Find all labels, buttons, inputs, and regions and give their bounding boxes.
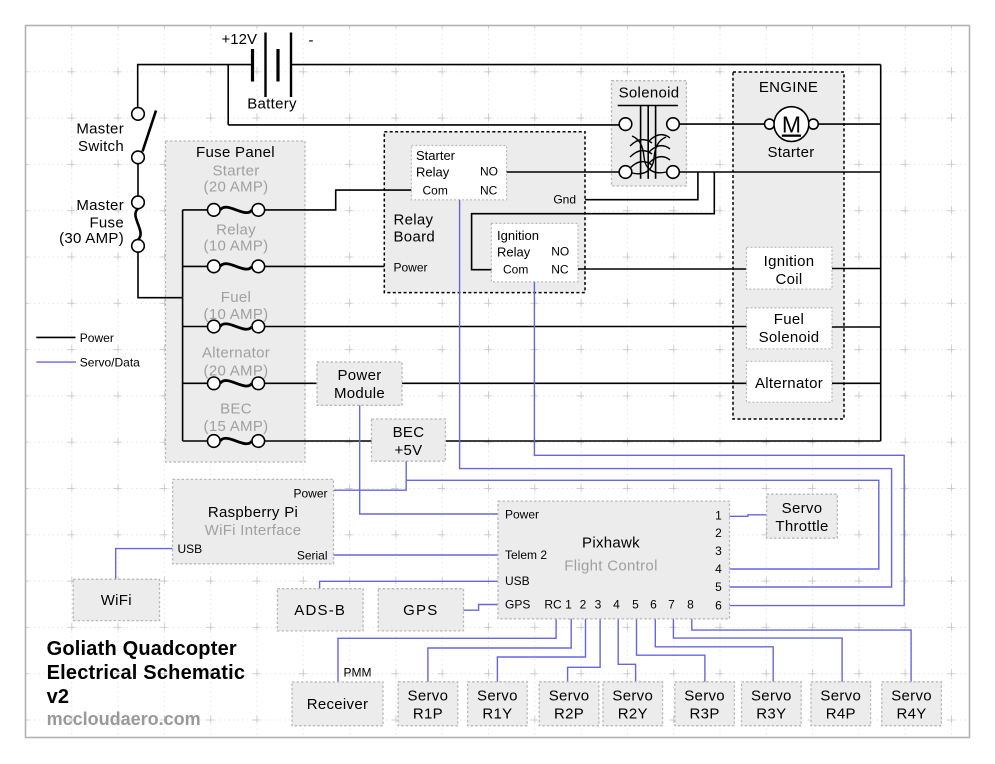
svg-text:Servo/Data: Servo/Data xyxy=(80,356,140,370)
svg-text:6: 6 xyxy=(715,599,722,613)
wire pixhawk RC to receiver xyxy=(338,617,556,682)
wire starter fuse to relay board Com xyxy=(265,190,412,210)
servo R1Y M4 xyxy=(468,682,528,726)
svg-text:Starter: Starter xyxy=(767,144,814,161)
pin pixhawk out 1 xyxy=(715,509,722,523)
wire BEC module to right bus xyxy=(445,440,880,442)
pin Com starter relay xyxy=(423,184,448,198)
wire pixhawk rc4 to servo R2Y xyxy=(618,617,635,682)
pin pixhawk RC row xyxy=(544,598,694,612)
svg-text:Module: Module xyxy=(334,385,385,402)
svg-text:Ignition: Ignition xyxy=(764,253,815,270)
wifi module U5 xyxy=(73,579,159,620)
pin NO ignition relay xyxy=(551,245,569,259)
receiver U9 xyxy=(292,682,383,726)
wire power module to pixhawk power xyxy=(360,405,498,514)
node fuse panel bus xyxy=(182,210,184,441)
svg-text:Servo: Servo xyxy=(408,687,449,704)
svg-text:R2P: R2P xyxy=(554,705,584,722)
svg-text:NC: NC xyxy=(480,184,498,198)
pin pixhawk out 6 xyxy=(715,599,722,613)
GPS module U7 xyxy=(378,589,463,631)
wire solenoid to starter motor xyxy=(679,123,764,125)
pin Gnd relay board xyxy=(553,193,576,207)
label Starter Relay xyxy=(416,148,456,180)
wire battery bottom rail to solenoid xyxy=(228,124,619,126)
solenoid terminal top left xyxy=(619,118,632,131)
fuse F1 starter 20 AMP xyxy=(183,204,265,217)
svg-text:R3Y: R3Y xyxy=(756,705,786,722)
svg-text:Relay: Relay xyxy=(216,222,256,239)
label Pixhawk Flight Control xyxy=(564,535,657,575)
svg-text:Flight Control: Flight Control xyxy=(564,558,657,575)
wire solenoid to ignition relay com xyxy=(472,172,715,270)
legend servo data line xyxy=(36,356,140,370)
svg-text:Fuse: Fuse xyxy=(89,215,124,232)
servo R2Y M6 xyxy=(603,682,663,726)
servo R3Y M8 xyxy=(742,682,802,726)
svg-text:-: - xyxy=(309,32,314,49)
solenoid terminal bottom right xyxy=(667,166,680,179)
svg-text:Telem 2: Telem 2 xyxy=(505,548,547,562)
servo R3P M7 xyxy=(675,682,735,726)
svg-text:3: 3 xyxy=(715,544,722,558)
svg-text:Starter: Starter xyxy=(416,148,456,163)
svg-text:USB: USB xyxy=(178,542,203,556)
pin NC starter relay xyxy=(480,184,498,198)
svg-text:Fuse Panel: Fuse Panel xyxy=(196,144,275,161)
svg-text:Switch: Switch xyxy=(78,138,124,155)
pin NC ignition relay xyxy=(551,263,569,277)
svg-text:Receiver: Receiver xyxy=(307,696,369,713)
label ADS-B xyxy=(294,602,346,619)
label Relay 10 AMP xyxy=(204,222,269,255)
wire BEC to raspberry pi power xyxy=(334,461,407,490)
label Starter motor xyxy=(767,144,814,161)
svg-text:1: 1 xyxy=(565,598,572,612)
servo throttle M2 xyxy=(767,494,838,538)
svg-text:Fuel: Fuel xyxy=(774,311,804,328)
pin raspberry pi Serial xyxy=(297,549,328,563)
wire fuel fuse to fuel solenoid xyxy=(265,326,747,328)
label BEC 15 AMP xyxy=(204,401,269,436)
svg-text:Power: Power xyxy=(337,367,381,384)
label mccloudaero.com xyxy=(47,709,201,729)
svg-text:1: 1 xyxy=(715,509,722,523)
svg-text:mccloudaero.com: mccloudaero.com xyxy=(47,709,201,729)
svg-text:PMM: PMM xyxy=(344,666,372,680)
svg-text:Relay: Relay xyxy=(394,211,434,228)
BEC U3 xyxy=(372,419,446,461)
svg-text:NO: NO xyxy=(551,245,569,259)
wire fuel solenoid to right bus xyxy=(832,326,881,328)
svg-text:+5V: +5V xyxy=(394,442,422,459)
svg-text:4: 4 xyxy=(715,562,722,576)
svg-text:5: 5 xyxy=(632,598,639,612)
svg-text:Battery: Battery xyxy=(247,96,297,113)
label Master Fuse 30 AMP xyxy=(59,197,124,247)
svg-text:Power: Power xyxy=(394,261,428,275)
label Servo R4Y xyxy=(891,687,932,722)
raspberry pi U4 xyxy=(173,479,334,563)
svg-text:Starter: Starter xyxy=(212,163,259,180)
svg-text:Com: Com xyxy=(503,263,528,277)
wire battery tap down xyxy=(227,65,229,125)
label Power Module xyxy=(334,367,385,402)
switch S1 master switch xyxy=(132,108,156,197)
svg-text:+12V: +12V xyxy=(222,31,257,48)
svg-text:Relay: Relay xyxy=(497,245,531,260)
power module PM1 xyxy=(317,362,402,405)
wire master fuse to fuse panel bus xyxy=(138,252,183,298)
solenoid core lines xyxy=(641,106,656,179)
relay K1 starter relay xyxy=(411,146,506,200)
label +12V xyxy=(222,31,257,48)
svg-text:BEC: BEC xyxy=(220,401,252,418)
servo R1P M3 xyxy=(398,682,458,726)
label minus xyxy=(309,32,314,49)
wire gps to pixhawk gps xyxy=(464,605,499,611)
svg-text:WiFi: WiFi xyxy=(101,592,132,609)
label Fuel 10 AMP xyxy=(204,289,269,323)
wire starter motor to right bus xyxy=(818,123,880,125)
wire pixhawk pin1 to servo throttle xyxy=(730,515,767,517)
wire battery positive to master switch xyxy=(138,65,253,108)
pin pixhawk USB xyxy=(505,574,530,588)
svg-text:Alternator: Alternator xyxy=(755,375,823,392)
wire pixhawk rc5 to servo R3P xyxy=(637,617,705,682)
label Servo R4P xyxy=(820,687,861,722)
svg-text:NC: NC xyxy=(551,263,569,277)
svg-text:8: 8 xyxy=(687,598,694,612)
svg-text:Electrical Schematic: Electrical Schematic xyxy=(47,662,246,684)
svg-text:Fuel: Fuel xyxy=(221,289,251,306)
solenoid core bar xyxy=(618,105,678,107)
label Servo R2Y xyxy=(612,687,653,722)
label WiFi xyxy=(101,592,132,609)
label Raspberry Pi WiFi Interface xyxy=(205,504,302,539)
svg-text:Alternator: Alternator xyxy=(202,345,270,362)
pin pixhawk out 5 xyxy=(715,580,722,594)
svg-text:(20 AMP): (20 AMP) xyxy=(204,179,269,196)
label Starter 20 AMP xyxy=(204,163,269,196)
solenoid L1 enclosure xyxy=(612,81,687,186)
alternator G1 xyxy=(747,361,833,402)
servo R2P M5 xyxy=(539,682,599,726)
wire pixhawk rc7 to servo R4P xyxy=(673,617,842,682)
svg-text:Ignition: Ignition xyxy=(497,228,539,243)
fuel solenoid V1 xyxy=(747,308,833,349)
wire BEC to pixhawk pin 4 xyxy=(406,480,879,569)
wire alternator to right bus xyxy=(832,382,881,384)
wire pixhawk rc6 to servo R3Y xyxy=(655,617,773,682)
wire starter relay NO to solenoid xyxy=(507,171,620,173)
wire BEC fuse to BEC module xyxy=(265,440,372,442)
svg-text:GPS: GPS xyxy=(403,602,438,619)
svg-text:(15 AMP): (15 AMP) xyxy=(204,418,269,435)
svg-text:Power: Power xyxy=(505,507,539,521)
svg-text:Pixhawk: Pixhawk xyxy=(582,535,640,552)
fuse F3 fuel 10 AMP xyxy=(183,320,265,333)
svg-text:(30 AMP): (30 AMP) xyxy=(59,230,124,247)
svg-text:BEC: BEC xyxy=(393,424,425,441)
svg-text:7: 7 xyxy=(668,598,675,612)
wire solenoid bottom to right bus xyxy=(679,171,880,173)
svg-text:M: M xyxy=(782,112,801,138)
label Alternator xyxy=(755,375,823,392)
label Servo R3Y xyxy=(751,687,792,722)
fuse F4 alternator 20 AMP xyxy=(183,377,265,390)
label Receiver xyxy=(307,696,369,713)
svg-text:USB: USB xyxy=(505,574,530,588)
svg-text:4: 4 xyxy=(613,598,620,612)
battery B1 xyxy=(253,33,292,98)
ADS-B module U6 xyxy=(277,589,363,631)
svg-text:Master: Master xyxy=(76,121,124,138)
svg-text:Master: Master xyxy=(76,197,124,214)
svg-text:Serial: Serial xyxy=(297,549,328,563)
fuse F5 BEC 15 AMP xyxy=(183,435,265,448)
pin raspberry pi USB xyxy=(178,542,203,556)
wire ignition relay to pixhawk pin 6 xyxy=(534,282,904,606)
svg-text:R4Y: R4Y xyxy=(897,705,927,722)
pin pixhawk Power xyxy=(505,507,539,521)
label Servo R2P xyxy=(549,687,590,722)
svg-text:R1Y: R1Y xyxy=(482,705,512,722)
svg-text:Servo: Servo xyxy=(891,687,932,704)
svg-text:3: 3 xyxy=(595,598,602,612)
node right power bus xyxy=(880,65,882,441)
wire power module to alternator xyxy=(402,382,747,384)
pin raspberry pi Power xyxy=(293,486,327,500)
svg-text:ADS-B: ADS-B xyxy=(294,602,346,619)
label Servo R1P xyxy=(408,687,449,722)
svg-text:WiFi Interface: WiFi Interface xyxy=(205,522,302,539)
svg-text:Servo: Servo xyxy=(751,687,792,704)
wire pixhawk rc8 to servo R4Y xyxy=(692,617,911,682)
svg-text:Goliath Quadcopter: Goliath Quadcopter xyxy=(47,638,237,660)
svg-text:(10 AMP): (10 AMP) xyxy=(204,238,269,255)
wire starter relay to pixhawk pin 5 xyxy=(460,200,892,587)
wire raspberry pi usb to wifi xyxy=(116,549,173,580)
svg-text:Solenoid: Solenoid xyxy=(759,329,820,346)
svg-text:Servo: Servo xyxy=(820,687,861,704)
servo R4Y M10 xyxy=(882,682,942,726)
label Alternator 20 AMP xyxy=(202,345,270,380)
svg-text:2: 2 xyxy=(715,526,722,540)
wire battery negative to right bus xyxy=(291,64,881,66)
pin pixhawk out 3 xyxy=(715,544,722,558)
label Servo Throttle xyxy=(775,500,828,535)
label Ignition Coil xyxy=(764,253,815,288)
wire pixhawk rc3 to servo R2P xyxy=(568,617,601,682)
relay K2 ignition relay xyxy=(491,223,578,281)
label PMM xyxy=(344,666,372,680)
fuse F0 master fuse 30 AMP xyxy=(132,196,145,252)
pin pixhawk out 2 xyxy=(715,526,722,540)
legend power line xyxy=(36,331,114,345)
label Solenoid xyxy=(619,85,680,102)
label ENGINE xyxy=(759,79,818,96)
wire pixhawk rc2 to servo R1Y xyxy=(497,617,585,682)
servo R4P M9 xyxy=(811,682,871,726)
svg-text:v2: v2 xyxy=(47,686,70,708)
wire pixhawk rc1 to servo R1P xyxy=(428,617,571,682)
wire raspberry pi serial to pixhawk telem2 xyxy=(334,554,499,556)
relay board U2 enclosure xyxy=(384,132,585,293)
svg-text:Raspberry Pi: Raspberry Pi xyxy=(208,504,298,521)
solenoid terminal bottom left xyxy=(619,166,632,179)
svg-text:Servo: Servo xyxy=(684,687,725,704)
svg-text:R3P: R3P xyxy=(690,705,720,722)
svg-text:RC: RC xyxy=(544,598,562,612)
svg-text:Servo: Servo xyxy=(782,500,823,517)
svg-text:Servo: Servo xyxy=(549,687,590,704)
ignition coil T1 xyxy=(747,247,833,289)
svg-text:6: 6 xyxy=(650,598,657,612)
label Servo R3P xyxy=(684,687,725,722)
pin Com ignition relay xyxy=(503,263,528,277)
svg-text:R2Y: R2Y xyxy=(618,705,648,722)
pin pixhawk Telem 2 xyxy=(505,548,547,562)
svg-text:Throttle: Throttle xyxy=(775,518,828,535)
motor M1 starter xyxy=(765,107,819,142)
pixhawk U8 flight controller xyxy=(498,501,730,619)
svg-text:Board: Board xyxy=(394,229,436,246)
wire adsb to pixhawk usb xyxy=(320,581,498,588)
fuse panel enclosure xyxy=(166,141,306,462)
label Fuel Solenoid xyxy=(759,311,820,346)
svg-text:Power: Power xyxy=(80,331,114,345)
label Fuse Panel xyxy=(196,144,275,161)
title Goliath Quadcopter Electrical Schematic v2 xyxy=(47,638,246,708)
engine enclosure xyxy=(733,72,844,419)
svg-text:Coil: Coil xyxy=(775,271,802,288)
pin pixhawk out 4 xyxy=(715,562,722,576)
label Servo R1Y xyxy=(477,687,518,722)
label Master Switch xyxy=(76,121,124,156)
label Battery xyxy=(247,96,297,113)
label GPS xyxy=(403,602,438,619)
svg-text:Solenoid: Solenoid xyxy=(619,85,680,102)
fuse F2 relay 10 AMP xyxy=(183,260,265,273)
solenoid terminal top right xyxy=(667,118,680,131)
svg-text:R1P: R1P xyxy=(413,705,443,722)
svg-text:GPS: GPS xyxy=(505,598,530,612)
pin NO starter relay xyxy=(480,165,498,179)
wire ignition coil to right bus xyxy=(832,268,881,270)
solenoid coil arcs xyxy=(630,135,670,174)
wire alternator fuse to power module xyxy=(265,382,317,384)
pin pixhawk GPS xyxy=(505,598,530,612)
svg-text:ENGINE: ENGINE xyxy=(759,79,818,96)
label Ignition Relay xyxy=(497,228,539,260)
wire relay board gnd xyxy=(585,172,698,200)
label Relay Board xyxy=(394,211,436,245)
svg-text:R4P: R4P xyxy=(826,705,856,722)
svg-text:Power: Power xyxy=(293,486,327,500)
svg-text:2: 2 xyxy=(580,598,587,612)
svg-text:Relay: Relay xyxy=(416,165,450,180)
svg-text:Gnd: Gnd xyxy=(553,193,576,207)
svg-text:NO: NO xyxy=(480,165,498,179)
label relay board Power pin xyxy=(394,261,428,275)
svg-text:Servo: Servo xyxy=(477,687,518,704)
svg-text:5: 5 xyxy=(715,580,722,594)
label BEC +5V xyxy=(393,424,425,459)
svg-text:Com: Com xyxy=(423,184,448,198)
svg-text:Servo: Servo xyxy=(612,687,653,704)
wire relay fuse to relay board power xyxy=(265,265,385,267)
wire ignition relay NC to ignition coil xyxy=(578,268,747,270)
